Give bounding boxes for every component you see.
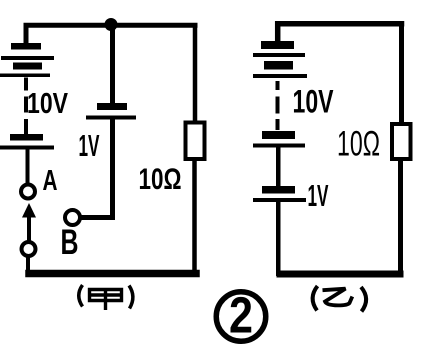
wire: lower cell to terminal A [26, 150, 30, 185]
wire: dashed segment of circuit 乙 across 10V label [276, 81, 280, 130]
wire: resistor to bottom conductor, circuit 甲 [192, 160, 197, 274]
figure number ② [216, 287, 266, 344]
terminal: lower contact of switch (open circle) [22, 242, 36, 256]
caption (甲) [79, 285, 133, 310]
wire: top conductor of circuit 乙 [278, 24, 402, 42]
switch blade arrow (points to A) [22, 203, 36, 242]
wire: middle branch from junction down to 1V battery [110, 28, 115, 104]
svg-text:10Ω: 10Ω [139, 163, 182, 196]
svg-text:A: A [43, 165, 58, 197]
terminal A (open circle) [21, 185, 35, 199]
wire: right conductor of circuit 甲, top section feeding resistor [193, 25, 198, 122]
svg-text:B: B [61, 223, 79, 262]
battery 10V (upper cells), circuit 乙 [253, 41, 307, 78]
battery 1V, middle branch [86, 103, 136, 120]
wire: top conductor of circuit 甲 (battery + to resistor branch) [26, 25, 195, 45]
wire: middle branch from 1V battery down and left to terminal B [81, 119, 113, 218]
wire: bottom conductor of circuit 甲 [29, 270, 196, 278]
resistor 10Ω, circuit 乙 [392, 124, 411, 159]
terminal B (open circle) [65, 210, 80, 225]
wire: middle cell to 1V cell, circuit 乙 [276, 147, 281, 187]
caption (乙) [313, 286, 367, 312]
wire: 1V cell to bottom conductor, circuit 乙 [276, 202, 281, 276]
battery cell (middle), circuit 乙 [253, 131, 305, 148]
svg-text:10V: 10V [293, 84, 334, 120]
wire: resistor to bottom conductor, circuit 乙 [398, 160, 403, 274]
wire: lower terminal to bottom-left corner [26, 256, 30, 274]
wire: right conductor of circuit 乙 feeding resistor [399, 24, 404, 125]
battery 1V, circuit 乙 [253, 186, 306, 202]
junction: node where middle branch meets top conductor [105, 18, 118, 31]
wire: bottom conductor of circuit 乙 [280, 271, 400, 278]
battery cell (lower), circuit 甲 [0, 134, 54, 150]
svg-text:1V: 1V [308, 178, 329, 213]
svg-text:10Ω: 10Ω [337, 125, 380, 164]
wire: dashed segment of left branch across 10V label [24, 78, 28, 135]
svg-text:1V: 1V [79, 128, 100, 163]
svg-text:2: 2 [229, 287, 253, 344]
svg-text:10V: 10V [27, 88, 69, 120]
battery 10V (upper cells), circuit 甲 [0, 43, 54, 77]
resistor 10Ω, circuit 甲 [186, 123, 205, 160]
